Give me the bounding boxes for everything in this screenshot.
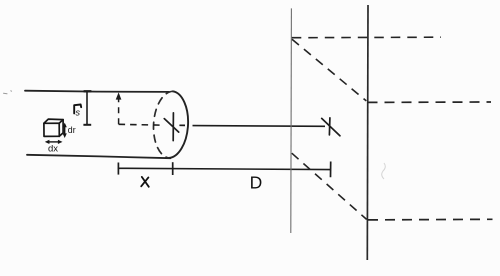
dash-dot piece right of centre	[179, 124, 185, 126]
bottom dashed horizontal ray	[368, 218, 493, 221]
tick left	[117, 163, 119, 175]
X mark at axis end: diagonal stroke	[322, 118, 340, 135]
X mark at axis end: vertical stroke	[328, 118, 331, 135]
r_s top cap	[84, 90, 92, 92]
top dashed horizontal ray	[292, 36, 441, 39]
disc centre cross: vertical stroke	[172, 113, 174, 141]
screen plane 1 (faint vertical)	[290, 8, 293, 233]
stray pen dots top-left	[4, 91, 12, 94]
svg-text:D: D	[250, 172, 263, 192]
cylinder bottom edge	[27, 155, 171, 158]
cylinder end cap, solid right arc	[169, 91, 188, 158]
tick below disc	[172, 162, 174, 175]
axis solid line to screen	[193, 125, 326, 128]
arrowhead up	[116, 92, 122, 99]
label x	[141, 177, 149, 187]
top diagonal dashed ray	[292, 39, 366, 101]
faint pencil smudge	[382, 163, 386, 179]
dashed vertical arrow (radius pointer)	[118, 98, 120, 125]
screen plane 2 (vertical)	[366, 5, 369, 260]
middle dashed horizontal ray	[368, 101, 492, 103]
label r_s	[74, 105, 81, 118]
cylinder top edge	[25, 91, 169, 92]
disc centre cross: diagonal stroke	[164, 119, 178, 133]
dimension base line	[118, 168, 331, 169]
dx arrow	[45, 140, 63, 144]
svg-text:dx: dx	[48, 144, 58, 155]
r_s measure line	[86, 92, 88, 124]
r_s bottom cap	[83, 124, 91, 126]
dashed axis from pointer to disc centre	[119, 123, 164, 126]
tick right end	[330, 162, 332, 178]
dr arrow	[63, 123, 67, 138]
svg-text:s: s	[76, 108, 81, 118]
svg-text:dr: dr	[68, 125, 76, 135]
volume element cube	[44, 119, 63, 136]
cylinder end cap, hidden left arc (dashed)	[154, 91, 173, 158]
bottom diagonal dashed ray	[292, 153, 367, 219]
